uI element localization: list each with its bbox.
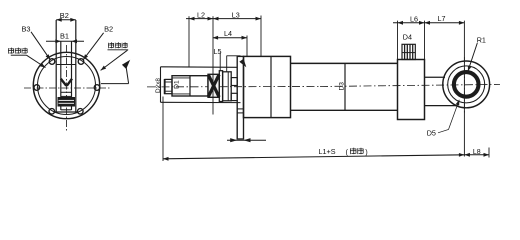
bolt holes	[94, 85, 100, 91]
svg-text:L4: L4	[224, 29, 232, 38]
main center line	[147, 86, 320, 88]
svg-text:D2x8: D2x8	[155, 78, 162, 93]
svg-text:B2: B2	[104, 25, 113, 34]
svg-text:D5: D5	[427, 129, 436, 138]
rod thread section with label D1	[172, 76, 208, 96]
gland housing	[223, 72, 232, 101]
svg-text:): )	[365, 147, 367, 156]
eye vertical center line	[463, 57, 465, 114]
center lines of end view	[24, 87, 111, 89]
cylinder tube with label D3	[291, 62, 398, 64]
rear eye outer circle	[443, 61, 490, 108]
svg-text:L7: L7	[438, 14, 446, 23]
slot top edge	[56, 64, 76, 66]
eye bracket neck	[425, 76, 446, 78]
label huanchongfa (cushion valve) with leader	[108, 42, 114, 48]
svg-text:R1: R1	[477, 35, 486, 44]
svg-text:D1: D1	[174, 80, 181, 89]
tube weld seam	[344, 63, 346, 110]
clevis slab outer edges	[55, 20, 57, 113]
slot bottom edge	[61, 109, 72, 111]
rod boot outline	[161, 66, 238, 69]
extension lines L6 L7	[397, 21, 399, 60]
cone tip V	[61, 79, 67, 86]
dimension L1+S stroke	[163, 155, 464, 159]
dimension line D2	[163, 79, 165, 94]
front head block	[244, 56, 291, 117]
svg-text:D4: D4	[403, 33, 412, 42]
slot cross lines	[61, 91, 72, 93]
svg-text:L2: L2	[197, 10, 205, 19]
svg-text:L1+S: L1+S	[319, 147, 336, 156]
dimension flange thickness at foot	[227, 139, 266, 141]
rear head block	[398, 60, 425, 120]
label paiqikong (air vent) with leader	[8, 48, 14, 54]
svg-text:B3: B3	[21, 24, 30, 33]
rod tip	[165, 79, 172, 93]
center nut block	[58, 98, 75, 107]
front mounting flange plate	[237, 56, 243, 139]
wrench flats block with cross hatch	[208, 74, 219, 97]
rear eye bore ring D5	[454, 72, 479, 97]
flange outer circle	[33, 52, 99, 118]
oil port boss D4	[402, 44, 415, 59]
gland bolts on flange face	[231, 78, 237, 86]
svg-text:D3: D3	[339, 82, 346, 91]
rod collar	[219, 71, 222, 102]
slab bottom edge	[54, 111, 78, 113]
svg-text:L6: L6	[410, 14, 418, 23]
extension lines L2 L3	[188, 16, 190, 66]
rear eye middle circle	[448, 66, 485, 103]
bolt circle	[38, 57, 96, 115]
clevis slot inner edges	[60, 41, 62, 110]
view direction arrow at right of flange	[101, 83, 129, 85]
svg-text:B1: B1	[60, 31, 69, 40]
svg-text:L3: L3	[232, 11, 240, 20]
